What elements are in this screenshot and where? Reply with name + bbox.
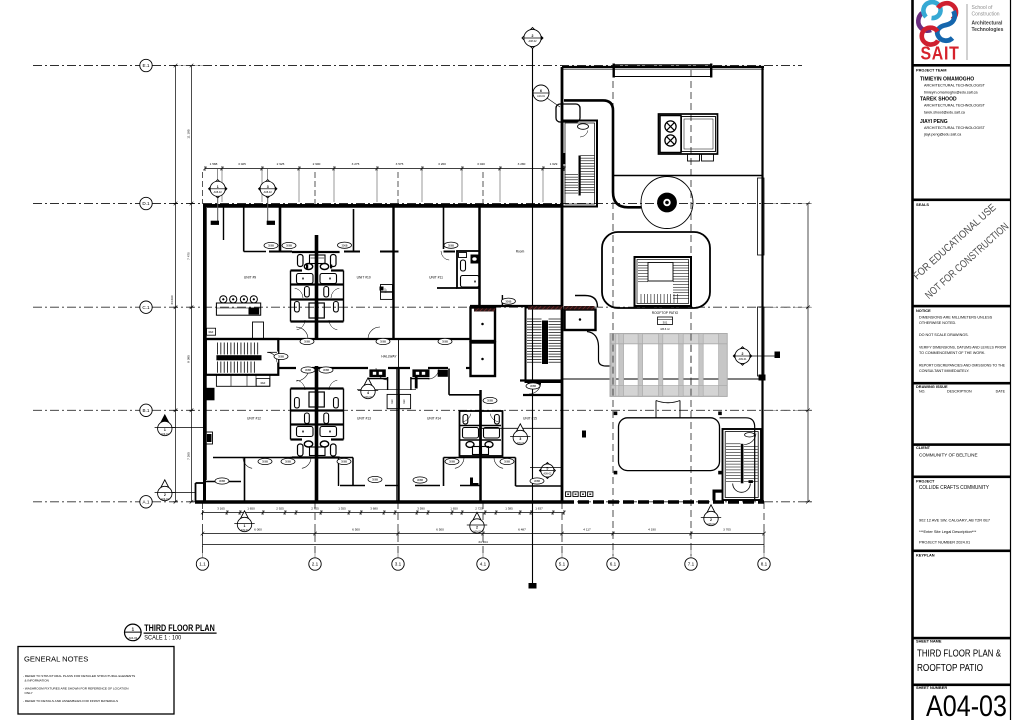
svg-text:UNIT #14: UNIT #14 (427, 417, 441, 421)
svg-text:1 355: 1 355 (338, 506, 346, 510)
svg-text:306B: 306B (417, 478, 423, 482)
svg-text:3 040: 3 040 (477, 162, 485, 166)
svg-text:School of: School of (972, 5, 993, 11)
section marker 4/A09-02 hallway (357, 388, 416, 390)
detail circle 5/A09-02 (539, 463, 555, 479)
wall: north interior with door tags units 9/10 (344, 251, 360, 253)
svg-text:OTHERWISE NOTED.: OTHERWISE NOTED. (919, 321, 956, 325)
svg-text:1 650: 1 650 (450, 506, 458, 510)
svg-text:5: 5 (546, 467, 548, 471)
svg-text:UNIT #13: UNIT #13 (357, 417, 371, 421)
wall: unit 15 interior (516, 485, 563, 487)
door tag oval stair south (526, 383, 540, 389)
separator bar project (913, 476, 1011, 479)
svg-text:306B: 306B (262, 460, 268, 464)
pod C toilets upper (295, 398, 300, 409)
dim extension line (461, 171, 463, 202)
counter row below stair (216, 375, 270, 386)
svg-text:UNIT #15: UNIT #15 (523, 417, 537, 421)
pod A tubs (297, 274, 314, 284)
svg-text:A09-02: A09-02 (543, 473, 552, 476)
svg-text:SCALE 1 : 100: SCALE 1 : 100 (144, 636, 182, 642)
section marker 2/A09-01 east (733, 347, 751, 365)
stair: central enclosure (526, 308, 563, 383)
svg-text:6 500: 6 500 (352, 527, 360, 531)
unit 9 kitchen counter (253, 322, 264, 339)
title block right border (1010, 0, 1012, 720)
pod C door arcs upper (297, 380, 305, 390)
bottom dim row 1 (203, 512, 565, 514)
svg-text:4.1: 4.1 (480, 562, 487, 567)
svg-text:TO COMMENCEMENT OF THE WORK.: TO COMMENCEMENT OF THE WORK. (919, 351, 985, 355)
stair hatched strip (528, 306, 562, 309)
pod C sinks (304, 441, 312, 447)
svg-text:2 925: 2 925 (276, 506, 284, 510)
pod B unit 11: outline (457, 251, 480, 288)
SAIT logo red top hook (938, 3, 956, 19)
grid line A.1 (33, 501, 812, 503)
stair SE landing arc (733, 484, 751, 493)
hot tub deck rounded rect (619, 418, 720, 471)
svg-text:A09-02: A09-02 (241, 529, 249, 532)
wall: rooftop south edge dashed (563, 500, 764, 503)
stair: west treads upper run (217, 343, 219, 355)
wall: unit 14 bedroom (444, 457, 516, 459)
svg-text:& INFORMATION: & INFORMATION (25, 679, 49, 683)
svg-text:Construction: Construction (972, 12, 1000, 18)
stair SE treads (726, 443, 741, 445)
stair lounge inner cab (648, 263, 673, 282)
door tag oval stair east (274, 353, 288, 359)
wall: unit 10 north interior (269, 251, 292, 253)
separator bar client (913, 443, 1011, 446)
mech room curved duct wall (564, 100, 641, 207)
pod B tub (461, 276, 480, 288)
pod A door arcs lower (297, 320, 305, 330)
wall: party 9/10 x=316.5 (315, 235, 319, 339)
pod C tubs (297, 427, 314, 437)
grid bubble 1.1 (196, 558, 208, 570)
svg-text:SHEET NAME: SHEET NAME (916, 639, 942, 644)
svg-text:3 575: 3 575 (396, 162, 404, 166)
pod C toilets mid (305, 413, 310, 424)
grid line D.1 (33, 203, 802, 205)
svg-text:1 588: 1 588 (210, 162, 218, 166)
pod C washer-dryer stack (310, 447, 318, 456)
dim extension line (261, 171, 263, 202)
wall: rooftop north (562, 66, 764, 68)
separator bar sheet name (913, 637, 1011, 640)
grid bubble 5.1 (556, 558, 568, 570)
pod A units 9/10: outline (292, 251, 340, 253)
svg-text:A09-02: A09-02 (161, 433, 169, 436)
wall: unit 10 hanging wall (353, 209, 355, 252)
pod B door arc (441, 251, 449, 260)
svg-text:DATE: DATE (996, 390, 1006, 394)
REF box below stair (256, 379, 270, 387)
unit 10 kitchen REF pair (381, 285, 393, 292)
svg-text:11 185: 11 185 (187, 129, 191, 139)
svg-text:306B: 306B (487, 399, 493, 403)
elevator 3 hatched strip (564, 306, 595, 310)
svg-text:2: 2 (532, 34, 534, 38)
bottom dim row 2 (203, 533, 765, 535)
dim extension line (333, 171, 335, 202)
east ledge black post (759, 375, 766, 381)
svg-text:306B: 306B (219, 479, 225, 483)
dim extension line (298, 171, 300, 202)
grid line 5.1 (561, 502, 563, 556)
grid line E.1 (33, 65, 802, 67)
logo separator rule (966, 4, 968, 60)
svg-text:3 275: 3 275 (352, 162, 360, 166)
svg-text:A10-01: A10-01 (537, 95, 545, 98)
left dim line segments (191, 66, 193, 502)
svg-text:4 117: 4 117 (583, 527, 591, 531)
section marker 2/A08-02 southeast (704, 505, 717, 518)
stair: central treads (527, 318, 542, 320)
svg-text:306B: 306B (285, 460, 291, 464)
svg-text:6 000: 6 000 (254, 527, 262, 531)
pod D washer stack (473, 447, 480, 455)
svg-text:1.1: 1.1 (199, 562, 206, 567)
svg-text:306B: 306B (504, 460, 510, 464)
wall: rooftop mech south (613, 175, 763, 177)
grid bubble 3.1 (392, 558, 404, 570)
svg-text:Room: Room (516, 250, 525, 254)
svg-text:306B: 306B (534, 479, 540, 483)
svg-text:UNIT #11: UNIT #11 (429, 275, 443, 279)
svg-text:PROJECT: PROJECT (916, 479, 935, 484)
svg-text:ROOFTOP PATIO: ROOFTOP PATIO (917, 663, 983, 674)
svg-text:306B: 306B (341, 460, 347, 464)
svg-text:REF: REF (403, 399, 406, 404)
stair lounge treads right (673, 262, 689, 264)
unit 9 kitchen island (216, 303, 260, 315)
grid line 6.1 (612, 70, 614, 556)
svg-text:A09-02: A09-02 (473, 531, 481, 534)
rooftop stove (660, 116, 681, 153)
grid line 2.1 (314, 172, 316, 204)
section marker 2/A08-02 (522, 28, 543, 49)
grid line C.1 (33, 306, 802, 308)
svg-text:DIMENSIONS ARE MILLIMETERS UNL: DIMENSIONS ARE MILLIMETERS UNLESS (919, 316, 993, 320)
svg-text:6 500: 6 500 (436, 527, 444, 531)
pod C shower units (309, 392, 316, 407)
door tag oval unit11 (444, 242, 458, 248)
grid line 3.1 (397, 172, 399, 204)
vestibule rounded room (556, 104, 580, 122)
svg-text:SEALS: SEALS (916, 202, 929, 207)
stair NW stringer (579, 156, 581, 196)
svg-text:A09-02: A09-02 (161, 498, 169, 501)
svg-text:PROJECT NUMBER 2024.01: PROJECT NUMBER 2024.01 (919, 540, 970, 545)
svg-text:DO NOT SCALE DRAWINGS.: DO NOT SCALE DRAWINGS. (919, 333, 969, 337)
dim extension line (221, 171, 223, 202)
svg-text:306B: 306B (505, 299, 511, 303)
svg-text:3 705: 3 705 (723, 527, 731, 531)
separator bar drawing issue (913, 382, 1011, 385)
svg-text:306B: 306B (304, 340, 310, 344)
pod C units 12/13: outline (291, 387, 344, 389)
svg-text:ROOFTOP PATIO: ROOFTOP PATIO (652, 311, 679, 315)
top dimension line (205, 168, 564, 170)
svg-text:SAIT: SAIT (921, 44, 960, 64)
SAIT logo blue S ribbon (937, 11, 954, 41)
section marker 3/A08-02 (267, 169, 269, 181)
svg-text:THIRD FLOOR PLAN: THIRD FLOOR PLAN (144, 623, 215, 633)
svg-text:301: 301 (663, 320, 668, 324)
bottom dim extensions to bubbles (202, 546, 204, 558)
svg-text:A08-02: A08-02 (528, 40, 537, 43)
grid bubble 6.1 (607, 558, 619, 570)
dim extension line (421, 171, 423, 202)
svg-text:306B: 306B (278, 355, 284, 359)
stair SE black L mark (713, 490, 716, 501)
elevator 1 hatched strip (474, 308, 495, 311)
svg-text:3 590: 3 590 (417, 506, 425, 510)
door tag oval 307B unit9b (282, 242, 296, 248)
unit 14 kitchen black counter (412, 369, 429, 377)
svg-text:- REFER TO STRUCTURAL PLANS FO: - REFER TO STRUCTURAL PLANS FOR DETAILED… (23, 674, 135, 678)
wall: party 10/11 x=393.5 (392, 207, 394, 339)
stair SE tick (749, 480, 753, 483)
svg-text:3: 3 (267, 185, 269, 189)
svg-text:REF: REF (391, 399, 394, 404)
svg-text:2: 2 (476, 526, 478, 530)
section marker 1/A08-02 (217, 169, 219, 181)
dim extension line (376, 171, 378, 202)
planter symbols row (566, 492, 571, 497)
grid bubble E.1 (140, 59, 152, 71)
svg-text:2: 2 (164, 493, 166, 497)
svg-text:REF: REF (385, 288, 388, 293)
svg-text:ONLY: ONLY (25, 691, 33, 695)
svg-text:NO.: NO. (919, 390, 925, 394)
pod A door arcs upper (295, 288, 303, 298)
wall: party 13/14 x=398.5 (397, 368, 400, 502)
svg-text:D.1: D.1 (142, 201, 150, 206)
svg-text:GENERAL NOTES: GENERAL NOTES (24, 655, 88, 664)
svg-text:B.1: B.1 (143, 408, 150, 413)
door tag oval 306B unit9 (264, 242, 278, 248)
left dim extension lines (176, 65, 205, 67)
svg-text:1 650: 1 650 (247, 506, 255, 510)
wall: unit 9/10 balcony stub (279, 206, 282, 252)
svg-text:REPORT DISCREPANCIES AND OMISS: REPORT DISCREPANCIES AND OMISSIONS TO TH… (919, 364, 1006, 368)
wall: Room south / core north (470, 305, 562, 307)
stair: central stringer (542, 321, 548, 365)
lounge rounded enclosure (602, 232, 710, 308)
wall: main north exterior (204, 204, 562, 207)
stair NW treads upper flight (581, 155, 595, 157)
bottom dim row 3 total 34 164 (203, 544, 765, 546)
stair: central door + arc (529, 384, 541, 394)
pod A shower units lower (309, 303, 316, 318)
hallway door arcs (296, 368, 309, 381)
svg-text:KEYPLAN: KEYPLAN (916, 553, 935, 558)
svg-text:306B: 306B (442, 340, 448, 344)
door tag oval 308B unit10 (338, 242, 352, 248)
svg-text:A08-02: A08-02 (707, 523, 715, 526)
section marker 2/A09-02 west (158, 480, 171, 493)
grid line B.1 (33, 409, 812, 411)
grid bubble B.1 (140, 404, 152, 416)
wall: unit 15 north (523, 394, 562, 396)
svg-text:COLLIDE CRAFTS COMMUNITY: COLLIDE CRAFTS COMMUNITY (919, 485, 989, 491)
stair SE door arc (744, 434, 756, 445)
svg-text:1: 1 (244, 524, 246, 528)
pergola trellis (610, 334, 727, 344)
door tag ovals hallway (300, 338, 314, 344)
svg-text:JIAYI PENG: JIAYI PENG (920, 119, 948, 125)
separator bar seals (913, 199, 1011, 202)
general notes box (18, 647, 174, 715)
svg-text:2: 2 (710, 518, 712, 522)
grid bubble C.1 (140, 301, 152, 313)
right dim extensions (766, 203, 812, 205)
rooftop counter island (682, 117, 716, 152)
door tag ovals mid row (483, 397, 497, 403)
svg-text:306B: 306B (448, 243, 454, 247)
stair: west treads lower run (217, 362, 219, 373)
svg-text:306B: 306B (372, 478, 378, 482)
pod D door arcs (463, 414, 471, 422)
svg-text:A09-02: A09-02 (364, 396, 372, 399)
stair lounge treads left (638, 262, 648, 264)
stair: lounge enclosure (635, 257, 692, 306)
svg-text:7 265: 7 265 (187, 452, 191, 460)
svg-text:3 260: 3 260 (438, 162, 446, 166)
svg-text:Architectural: Architectural (972, 21, 1003, 27)
svg-text:3 025: 3 025 (238, 162, 246, 166)
wall: unit 9 entry closet side (223, 207, 225, 240)
grid bubble 4.1 (477, 558, 489, 570)
wall: hallway south segments (279, 367, 297, 369)
section marker 1/A09-02 south (238, 511, 251, 524)
svg-text:VERIFY DIMENSIONS, DATUMS AND: VERIFY DIMENSIONS, DATUMS AND LEVELS PRI… (919, 346, 1006, 350)
balcony walls south (340, 485, 365, 487)
svg-text:A08-02: A08-02 (264, 191, 273, 194)
pod A toilets lower (295, 302, 300, 313)
svg-text:***Enter Site Legal Descriptio: ***Enter Site Legal Description*** (919, 529, 977, 534)
grid bubble D.1 (140, 197, 152, 209)
svg-text:timieyin.omamogho@edu.sait.ca: timieyin.omamogho@edu.sait.ca (924, 91, 978, 95)
svg-text:4: 4 (367, 391, 369, 395)
pod B sink counter (471, 255, 480, 264)
wall: party 14/15 x=480.5 (479, 390, 482, 502)
elevator shaft 2 (471, 343, 496, 377)
wall: unit 11 closet (443, 206, 445, 250)
svg-text:4 190: 4 190 (648, 527, 656, 531)
svg-text:2 900: 2 900 (313, 162, 321, 166)
svg-text:ARCHITECTURAL TECHNOLOGIST: ARCHITECTURAL TECHNOLOGIST (924, 126, 986, 130)
rooftop fan hub (658, 193, 677, 212)
svg-text:6.1: 6.1 (610, 562, 617, 567)
detail circle 6/A10-01 (533, 85, 549, 101)
svg-text:DRAWING ISSUE: DRAWING ISSUE (916, 384, 948, 389)
svg-text:2 725: 2 725 (475, 506, 483, 510)
svg-text:A04-03: A04-03 (128, 636, 137, 640)
svg-text:433.6 m²: 433.6 m² (660, 328, 670, 331)
svg-text:3 280: 3 280 (518, 162, 526, 166)
svg-text:UNIT #10: UNIT #10 (357, 275, 371, 279)
pod A sinks (304, 264, 312, 270)
section marker 3/A09-02 unit 15 (514, 424, 527, 437)
svg-text:1 637: 1 637 (535, 506, 543, 510)
svg-text:34 164: 34 164 (478, 540, 488, 544)
pod D tubs (463, 428, 479, 439)
svg-text:E.1: E.1 (143, 63, 150, 68)
svg-text:1 629: 1 629 (550, 162, 558, 166)
svg-text:A.1: A.1 (143, 499, 150, 504)
pod A side cabinets (298, 255, 304, 267)
svg-text:7.1: 7.1 (688, 562, 695, 567)
SAIT logo red bottom loop (922, 28, 938, 45)
svg-text:- WASHROOM FIXTURES ARE SHOWN: - WASHROOM FIXTURES ARE SHOWN FOR REFERE… (23, 687, 129, 691)
pod C side cabinets (298, 444, 304, 456)
unit 14 REF black box (438, 370, 448, 377)
grid line 4.1 (482, 172, 484, 204)
stair SE door tag oval (745, 433, 755, 437)
svg-text:306B: 306B (268, 244, 274, 248)
wall: main east / rooftop west (561, 67, 564, 502)
svg-text:3 165: 3 165 (217, 506, 225, 510)
svg-text:UNIT #9: UNIT #9 (244, 275, 256, 279)
wall: party 12/13 x=316.5 (315, 366, 319, 502)
grid bubble 2.1 (309, 558, 321, 570)
right dim line (807, 204, 809, 502)
stair lounge treads bottom (640, 294, 642, 303)
unit 13 kitchen black counter (369, 369, 385, 377)
svg-text:TIMIEYIN OMAMOGHO: TIMIEYIN OMAMOGHO (920, 77, 974, 83)
grid line 7.1 (690, 70, 692, 556)
left overall dim line 34 660 (175, 66, 177, 502)
wall: hallway north (207, 338, 470, 340)
pod D sinks (466, 442, 474, 448)
wall: main south exterior (195, 500, 563, 504)
small fixture west wall (206, 432, 213, 444)
svg-text:jiayi.peng@edu.sait.ca: jiayi.peng@edu.sait.ca (923, 133, 962, 137)
unit 13 kitchen L-wall (368, 378, 388, 380)
unit 14 kitchen L-wall (410, 378, 429, 380)
svg-text:C.1: C.1 (142, 305, 150, 310)
svg-text:A04-03: A04-03 (926, 690, 1007, 720)
pod B shelf (459, 253, 467, 258)
SAIT logo cyan loop (923, 2, 940, 18)
wall: party 11/Room x=479.5 (478, 206, 481, 307)
svg-text:306B: 306B (341, 243, 347, 247)
dim extension line (499, 171, 501, 202)
wall: rooftop east (761, 67, 763, 502)
svg-text:3: 3 (519, 437, 521, 441)
unit 15 interior line (481, 427, 563, 429)
pod D toilets (463, 415, 468, 425)
svg-text:2 725: 2 725 (311, 506, 319, 510)
rooftop area tag (658, 317, 673, 325)
wall: unit 12 bedroom (213, 457, 292, 459)
grid bubble 8.1 (758, 558, 770, 570)
svg-text:- REFER TO DETAILS AND ASSEMBL: - REFER TO DETAILS AND ASSEMBLIES FOR FI… (23, 699, 118, 703)
svg-text:1: 1 (217, 185, 219, 189)
SAIT logo purple band (918, 13, 931, 31)
svg-text:1 385: 1 385 (505, 506, 513, 510)
svg-text:5.1: 5.1 (559, 562, 566, 567)
svg-text:TAREK SHOOD: TAREK SHOOD (920, 97, 957, 103)
stair NW treads lower flight (565, 174, 579, 176)
svg-text:8 385: 8 385 (187, 355, 191, 363)
pod D units 14/15: outline (460, 411, 503, 456)
